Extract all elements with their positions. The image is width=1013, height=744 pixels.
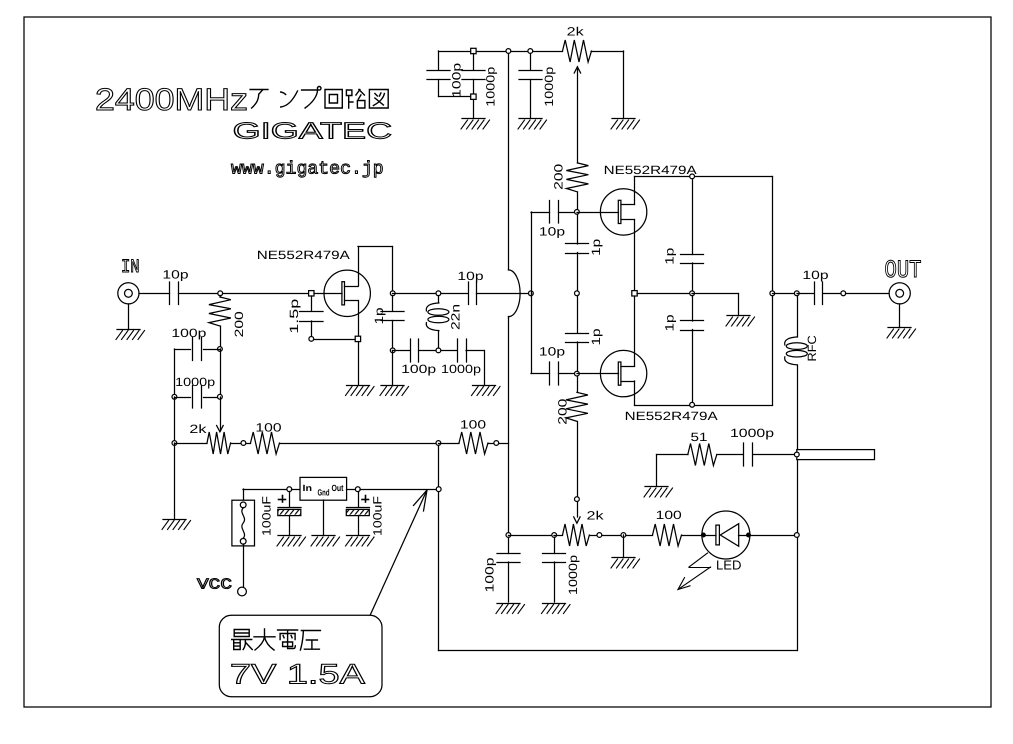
label 51	[691, 430, 708, 444]
label 200 (input bias)	[232, 311, 246, 338]
svg-text:1000p: 1000p	[730, 426, 774, 440]
wire 1000p to stub node	[753, 454, 795, 456]
svg-text:10p: 10p	[539, 224, 566, 238]
capacitor 100p (decouple)	[411, 339, 419, 362]
terminal VCC	[238, 587, 247, 596]
ground decouple right	[472, 386, 501, 396]
node reg in cap	[287, 487, 292, 492]
capacitor 1.5p (feedback)	[300, 312, 324, 322]
svg-text:200: 200	[552, 163, 566, 190]
title text 2400MHz	[95, 82, 248, 117]
wire 100p bottom elbow	[439, 80, 472, 97]
ground 1000p bottom	[542, 604, 571, 614]
resistor 51	[657, 444, 744, 466]
wire Q3 drain up	[634, 294, 636, 367]
node feedback left	[309, 337, 314, 342]
wire supply rail lower	[508, 317, 510, 536]
svg-text:Gnd: Gnd	[318, 488, 330, 498]
ground center tap	[726, 316, 755, 327]
wire top bus stage2	[635, 176, 773, 178]
capacitor 100p (bias)	[193, 338, 202, 361]
callout box	[219, 615, 382, 696]
svg-text:100p: 100p	[449, 62, 463, 97]
svg-text:1p: 1p	[589, 238, 603, 255]
capacitor 1000p (bias)	[193, 386, 202, 409]
resistor 100 (bias feed)	[246, 432, 436, 454]
connector IN	[118, 283, 139, 304]
wire source to ground	[358, 342, 360, 385]
wire LED to rail	[751, 535, 795, 537]
resistor 2k (bias trimmer)	[175, 432, 242, 454]
svg-text:Out: Out	[332, 483, 344, 493]
node decouple mid	[436, 348, 441, 353]
node bottom bus 1p	[690, 402, 695, 407]
node 22n top	[436, 291, 441, 296]
node stub	[794, 452, 799, 457]
wire reg out	[347, 489, 356, 491]
ground 100p bottom	[496, 604, 525, 614]
label 10p (interstage)	[457, 269, 484, 283]
wire 1p to lower node	[392, 321, 394, 351]
node LED rail	[794, 533, 799, 538]
wire 200 to gate node	[577, 192, 579, 210]
svg-text:2k: 2k	[587, 508, 605, 522]
label Out	[332, 483, 344, 493]
resistor 200 (input bias)	[209, 296, 231, 350]
callout arrow	[370, 490, 427, 616]
svg-text:7V 1.5A: 7V 1.5A	[230, 659, 365, 690]
wire 1p rail to ground	[392, 351, 394, 385]
capacitor 1p (Q1 drain)	[381, 296, 404, 321]
wire wiper bottom	[577, 502, 579, 518]
wire output rail to RFC node	[773, 293, 798, 295]
label In	[303, 483, 313, 493]
wire reg gnd pin	[323, 500, 325, 535]
wire right rail stage2	[772, 177, 774, 406]
label 1p (top right)	[663, 247, 677, 264]
wire Q3 source down	[634, 381, 636, 405]
arrow wiper bottom 2k	[574, 517, 580, 523]
ground bottom tap	[611, 558, 640, 569]
svg-text:OUT: OUT	[885, 256, 922, 285]
capacitor 1000p (stub)	[744, 443, 753, 466]
label 100p (bottom)	[483, 557, 497, 592]
node RFC tap	[794, 291, 799, 296]
arrow wiper left 2k	[217, 426, 224, 432]
label NE552R479A (Q1)	[257, 248, 350, 262]
node Q3 gate	[575, 371, 580, 376]
svg-text:100: 100	[656, 508, 683, 522]
title kana プ	[302, 87, 321, 109]
label Gnd	[318, 488, 330, 498]
wire pin to OUT	[846, 293, 890, 295]
capacitor 10p (interstage)	[469, 282, 477, 305]
svg-text:2k: 2k	[189, 422, 207, 436]
svg-text:2k: 2k	[567, 25, 585, 39]
svg-text:10p: 10p	[457, 269, 484, 283]
node reg out cap	[355, 487, 360, 492]
wire Q2 source down	[634, 220, 636, 294]
label 2k (top)	[567, 25, 585, 39]
resistor 2k (bottom trimmer)	[554, 524, 597, 546]
transistor Q3 NE552R479A	[600, 350, 646, 396]
node gate Q1	[309, 291, 314, 296]
ground left bias rail	[162, 520, 191, 530]
ground under 1p rail	[380, 386, 409, 396]
resistor 100 (LED)	[626, 524, 701, 546]
ground under 51	[644, 487, 673, 498]
wire 2k to ground	[623, 51, 625, 118]
ground top first	[461, 119, 490, 130]
ground under Q1 source	[346, 386, 375, 396]
transistor Q2 NE552R479A	[600, 189, 646, 235]
capacitor 1p (Q3 gate-line)	[566, 296, 589, 343]
label 2k (bias)	[189, 422, 207, 436]
label IN	[121, 256, 140, 278]
label OUT	[885, 256, 922, 285]
svg-text:1p: 1p	[372, 307, 386, 324]
wire 1p to bottom bus	[692, 330, 694, 403]
svg-text:10p: 10p	[539, 345, 566, 359]
resistor 200 (Q2 gate)	[566, 163, 588, 192]
label 1p (bottom right)	[663, 314, 677, 331]
node top bus C	[528, 49, 533, 54]
wire 10p to Q2 node	[559, 212, 578, 214]
wire left bias rail upper	[174, 349, 176, 397]
svg-text:100: 100	[255, 420, 282, 434]
svg-text:1000p: 1000p	[542, 66, 556, 106]
wire 200 bottom to pin	[577, 422, 579, 497]
label 100uF (output)	[371, 496, 385, 536]
wire to ground top first	[473, 100, 475, 119]
svg-text:1000p: 1000p	[483, 66, 497, 106]
label 200 (Q3 gate)	[555, 398, 569, 425]
wire gnd tap stem	[623, 535, 625, 557]
connector OUT	[889, 283, 910, 304]
pin wiper bottom	[575, 497, 580, 502]
wire out to supply node	[360, 489, 437, 491]
node stage2 center	[632, 291, 637, 296]
wire fuse to VCC	[243, 544, 245, 587]
label 1000p (top first)	[483, 66, 497, 106]
node 1000p right	[218, 394, 223, 399]
svg-text:100p: 100p	[401, 362, 436, 376]
node top bus B	[471, 94, 476, 99]
wire wiper to 200	[577, 67, 579, 163]
svg-text:NE552R479A: NE552R479A	[625, 409, 718, 423]
svg-text:1000p: 1000p	[441, 362, 481, 376]
title kanji 回	[325, 90, 342, 109]
wire C10p to pin	[824, 293, 842, 295]
label RFC	[805, 335, 819, 361]
pin output	[841, 291, 846, 296]
svg-text:1.5p: 1.5p	[287, 298, 301, 333]
node 2k left	[172, 441, 177, 446]
svg-text:GIGATEC: GIGATEC	[233, 118, 392, 144]
label NE552R479A (Q3)	[625, 409, 718, 423]
label NE552R479A (Q2)	[604, 163, 697, 177]
label 10p (Q3 gate)	[539, 345, 566, 359]
label 100 (LED)	[656, 508, 683, 522]
wire 100 to rail	[499, 443, 509, 445]
node 1000p left	[172, 394, 177, 399]
node supply 443	[436, 441, 441, 446]
svg-text:100: 100	[460, 418, 487, 432]
pin 100 right	[494, 441, 499, 446]
wire OUT ground stem	[899, 304, 901, 327]
capacitor 1p (top right)	[681, 179, 704, 264]
label 100 (supply)	[460, 418, 487, 432]
ground top second	[518, 119, 547, 130]
capacitor 10p (Q2 gate)	[550, 201, 559, 224]
polarity + (input cap)	[279, 496, 286, 503]
ground top 2k	[611, 119, 640, 130]
node gnd tap bottom	[621, 533, 626, 538]
node top bus rail	[506, 49, 511, 54]
svg-text:RFC: RFC	[805, 335, 819, 361]
svg-text:200: 200	[555, 398, 569, 425]
regulator U2	[300, 477, 347, 500]
wire source Q1 down	[358, 301, 360, 340]
wire main Q1-out	[393, 293, 468, 295]
label 1000p (stub)	[730, 426, 774, 440]
resistor 2k (top trimmer)	[563, 40, 592, 62]
wire bottom gate lead	[531, 373, 550, 375]
wire drain Q1 bracket	[358, 247, 393, 294]
svg-text:100p: 100p	[171, 326, 206, 340]
title text GIGATEC	[233, 118, 392, 144]
label 1000p (bottom)	[566, 555, 580, 595]
label 1000p (decouple)	[441, 362, 481, 376]
svg-text:1000p: 1000p	[566, 555, 580, 595]
capacitor 1p (Q2 gate-line)	[566, 215, 589, 254]
wire decouple run	[393, 351, 485, 385]
svg-text:100p: 100p	[483, 557, 497, 592]
ground under OUT	[887, 328, 916, 339]
wire inner box left rail	[438, 443, 440, 651]
wire bottom bus stage2	[635, 405, 773, 407]
capacitor 10p (input)	[170, 282, 179, 305]
svg-text:10p: 10p	[802, 268, 829, 282]
svg-text:NE552R479A: NE552R479A	[604, 163, 697, 177]
wire 2k to gnd node	[602, 535, 621, 537]
wire Q2 drain up	[634, 177, 636, 205]
label 1p (Q3 gate-line)	[589, 328, 603, 345]
wire 100p top-left corner	[438, 51, 440, 70]
label 200 (Q2 gate)	[552, 163, 566, 190]
wire C-10p to gate	[179, 293, 310, 295]
wire gate Q1	[314, 293, 342, 295]
wire node to reg	[292, 489, 301, 491]
node interstage split	[529, 291, 534, 296]
wire IN to C-10p	[139, 293, 170, 295]
capacitor 1p (bottom right)	[681, 296, 704, 331]
wire center to 1p right	[637, 293, 692, 295]
label LED	[716, 558, 742, 573]
wire 51 ground stem	[656, 455, 658, 486]
ground under IN	[116, 330, 145, 340]
label 22n	[448, 304, 462, 330]
svg-text:10p: 10p	[162, 268, 189, 282]
ground 100uF output	[346, 536, 375, 547]
svg-text:200: 200	[232, 311, 246, 338]
label 100uF (input)	[260, 496, 274, 536]
wire interstage	[477, 293, 532, 295]
capacitor 10p (Q3 gate)	[550, 362, 559, 385]
label VCC	[197, 577, 232, 594]
wire rail-end to 1000p	[509, 535, 555, 537]
arrow LED emission	[678, 553, 711, 590]
svg-text:2400MHz: 2400MHz	[95, 82, 248, 117]
label 100p (decouple)	[401, 362, 436, 376]
wire top gate lead	[531, 212, 550, 214]
wire 10p to Q3 node	[559, 373, 578, 375]
label 10p (input)	[162, 268, 189, 282]
node source/feedback junction	[355, 336, 360, 341]
label 100p (bias)	[171, 326, 206, 340]
fuse F1	[232, 500, 255, 546]
wire left rail to 2k	[174, 397, 176, 443]
wire hop over main line	[508, 270, 520, 317]
wire RFC to C10p	[797, 293, 814, 295]
capacitor 100uF (output)	[346, 492, 369, 536]
diode LED D1	[702, 511, 751, 559]
node rail end	[506, 533, 511, 538]
inductor 22n	[426, 296, 449, 349]
svg-text:In: In	[303, 483, 313, 493]
title kanji 路	[346, 90, 365, 109]
ground 100uF input	[277, 536, 306, 547]
capacitor 100p (top)	[427, 71, 450, 80]
capacitor 1000p (decouple)	[458, 339, 467, 362]
wire 1p to center	[577, 253, 579, 294]
node decouple left	[390, 348, 395, 353]
node 200/100p junction	[218, 347, 223, 352]
wire Q2 gate	[577, 212, 619, 214]
callout text 7V 1.5A	[230, 659, 365, 690]
wire 1p right to center	[692, 263, 694, 294]
wire reg in elbow	[243, 489, 245, 502]
label 1000p (bias)	[175, 375, 215, 389]
label 100 (bias feed)	[255, 420, 282, 434]
pin 2k right	[241, 441, 246, 446]
node center right	[690, 291, 695, 296]
svg-text:NE552R479A: NE552R479A	[257, 248, 350, 262]
transistor Q1 NE552R479A	[324, 270, 370, 316]
node drain Q1	[390, 291, 395, 296]
wire Q3 gate	[577, 373, 619, 375]
svg-text:IN: IN	[121, 256, 140, 278]
polarity + (output cap)	[362, 496, 369, 503]
node output rail	[770, 291, 775, 296]
title text www.gigatec.jp	[231, 160, 384, 180]
svg-text:www.gigatec.jp: www.gigatec.jp	[231, 160, 384, 180]
wire left rail to ground	[174, 443, 176, 519]
capacitor 100uF (input)	[278, 492, 301, 536]
label 1p (Q2 gate-line)	[589, 238, 603, 255]
wire center to ground tap	[692, 294, 739, 315]
capacitor 1000p (bottom)	[543, 538, 566, 603]
wire gate to C1.5p	[311, 296, 313, 311]
node top bus 1p	[690, 174, 695, 179]
svg-text:100uF: 100uF	[371, 496, 385, 536]
label 1000p (top second)	[542, 66, 556, 106]
wire top bus	[439, 51, 624, 53]
ground regulator	[311, 536, 340, 547]
wire right bias rail	[220, 349, 222, 397]
callout kanji 最	[232, 630, 253, 650]
wire feedback horizontal	[314, 339, 356, 341]
label 100p (top)	[449, 62, 463, 97]
callout kanji 圧	[300, 631, 320, 651]
title kana ア	[250, 90, 268, 109]
wire trimmer wiper (left 2k)	[220, 397, 222, 431]
wire 100p leads	[175, 349, 221, 351]
node center 1p junction	[575, 291, 580, 296]
capacitor 1000p (top second)	[519, 54, 542, 119]
svg-text:LED: LED	[716, 558, 742, 573]
title kana ン	[281, 91, 298, 107]
wire inner box bottom bus	[439, 650, 798, 652]
label 1.5p	[287, 298, 301, 333]
wire 1p to Q3 gate node	[577, 342, 579, 374]
wire supply rail upper	[508, 54, 510, 271]
wire regulator input line	[243, 489, 287, 491]
capacitor 1000p (top first)	[462, 54, 485, 95]
capacitor 100p (bottom)	[497, 538, 520, 603]
title kanji 図	[369, 90, 388, 109]
inductor RFC	[785, 296, 808, 453]
wire 1000p leads	[175, 397, 221, 399]
resistor 100 (supply)	[439, 432, 495, 454]
label 2k (bottom)	[587, 508, 605, 522]
svg-text:100uF: 100uF	[260, 496, 274, 536]
svg-text:51: 51	[691, 430, 708, 444]
label 10p (Q2 gate)	[539, 224, 566, 238]
capacitor 10p (output)	[815, 282, 823, 305]
svg-text:22n: 22n	[448, 304, 462, 330]
node input bias junction	[218, 291, 223, 296]
stub transmission line	[797, 450, 875, 460]
wire IN ground stem	[128, 304, 130, 329]
svg-text:1p: 1p	[589, 328, 603, 345]
callout kanji 大	[254, 629, 275, 650]
wire C1.5p to node	[311, 321, 313, 337]
svg-text:1p: 1p	[663, 247, 677, 264]
wire gate rail x531	[531, 212, 533, 374]
arrow wiper top 2k	[574, 67, 580, 73]
svg-text:VCC: VCC	[197, 577, 232, 594]
label 1p (Q1 drain)	[372, 307, 386, 324]
svg-text:1000p: 1000p	[175, 375, 215, 389]
node 1000p bottom top	[552, 533, 557, 538]
pin 2k bottom right	[597, 533, 602, 538]
node Q2 gate	[575, 210, 580, 215]
callout kanji 電	[278, 630, 298, 649]
node top bus A	[471, 48, 476, 53]
wire RFC rail down	[797, 455, 799, 651]
resistor 200 (Q3 gate)	[566, 376, 588, 421]
svg-text:1p: 1p	[663, 314, 677, 331]
node supply feed	[436, 487, 441, 492]
label 10p (output)	[802, 268, 829, 282]
